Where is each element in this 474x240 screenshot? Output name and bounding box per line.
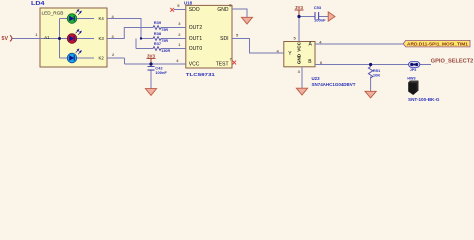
svg-text:K2: K2 (99, 55, 105, 60)
svg-text:5V: 5V (2, 36, 9, 42)
svg-text:LED_RGB: LED_RGB (42, 10, 64, 15)
svg-text:SNT-100-BK-G: SNT-100-BK-G (408, 97, 440, 102)
svg-text:130R: 130R (161, 49, 170, 53)
svg-text:OUT1: OUT1 (189, 36, 203, 42)
svg-text:LD4: LD4 (31, 1, 45, 7)
svg-text:GND: GND (217, 7, 229, 13)
svg-text:K4: K4 (99, 16, 105, 21)
svg-text:R37: R37 (154, 41, 162, 46)
svg-text:TLC59731: TLC59731 (186, 72, 216, 77)
svg-text:C53: C53 (314, 5, 322, 10)
svg-text:ARD.D11-SPI1_MOSI_TIM1: ARD.D11-SPI1_MOSI_TIM1 (407, 42, 468, 47)
svg-text:100nF: 100nF (314, 18, 326, 23)
svg-text:VCC: VCC (189, 62, 200, 68)
svg-text:A1: A1 (44, 35, 50, 40)
svg-text:75R: 75R (161, 28, 168, 32)
svg-text:SN74AHC1G04DBVT: SN74AHC1G04DBVT (312, 82, 356, 87)
svg-text:U23: U23 (312, 76, 321, 81)
svg-text:SDI: SDI (220, 36, 228, 42)
svg-text:VCC: VCC (296, 41, 301, 51)
svg-text:U18: U18 (184, 0, 193, 5)
svg-text:R39: R39 (154, 20, 162, 25)
svg-text:OUT2: OUT2 (189, 25, 203, 31)
svg-text:OUT0: OUT0 (189, 46, 203, 52)
svg-text:R38: R38 (154, 31, 162, 36)
svg-text:TEST: TEST (216, 62, 229, 68)
svg-text:HW3: HW3 (407, 77, 415, 81)
svg-text:3V3: 3V3 (147, 54, 155, 59)
svg-text:GPIO_SELECT2: GPIO_SELECT2 (431, 59, 474, 65)
svg-text:K3: K3 (99, 36, 105, 41)
svg-text:100nF: 100nF (155, 70, 167, 75)
svg-text:JP5: JP5 (410, 68, 416, 72)
svg-text:SDO: SDO (189, 7, 200, 13)
svg-text:GND: GND (296, 53, 301, 64)
svg-text:10K: 10K (373, 72, 380, 77)
svg-text:3V3: 3V3 (295, 5, 303, 10)
svg-text:75R: 75R (161, 39, 168, 43)
